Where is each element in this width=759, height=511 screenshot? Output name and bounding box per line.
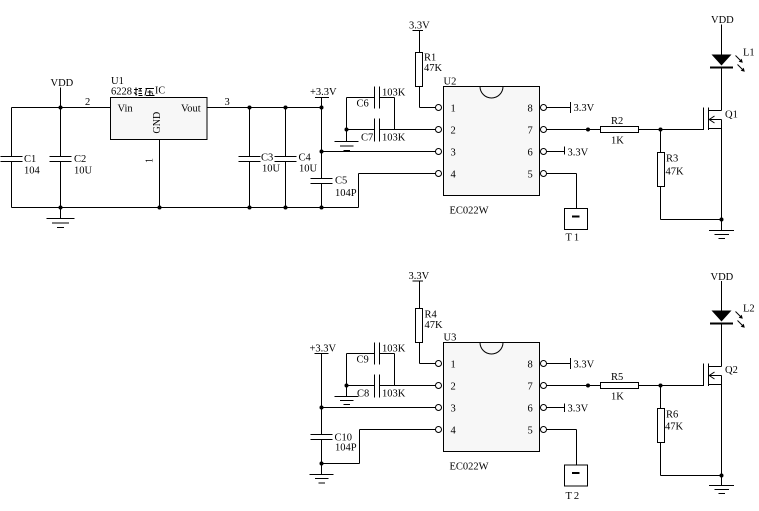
svg-text:T1: T1 [566, 233, 582, 244]
svg-text:U3: U3 [444, 333, 457, 344]
wire +3.3V down to C10 [321, 408, 323, 435]
svg-text:3.3V: 3.3V [409, 21, 430, 32]
resistor R3 [658, 130, 685, 220]
svg-text:R4: R4 [425, 310, 438, 321]
junction pin3 tee (bottom) [320, 406, 324, 410]
junction C10 bottom [320, 462, 324, 466]
regulator U1 [111, 76, 208, 140]
svg-text:103K: 103K [382, 133, 406, 144]
svg-text:2: 2 [451, 382, 456, 393]
svg-text:C8: C8 [357, 389, 369, 400]
svg-text:6: 6 [528, 404, 533, 415]
junction +3.3V rail end [320, 106, 324, 110]
svg-text:8: 8 [528, 360, 533, 371]
svg-text:104P: 104P [335, 443, 357, 454]
svg-text:C7: C7 [361, 133, 373, 144]
ground (Q1 source) [709, 220, 734, 239]
svg-text:103K: 103K [382, 389, 406, 400]
wire pin2 row (bottom) [380, 385, 436, 387]
junction pin7 wire (bottom) [586, 384, 590, 388]
wire R6 bottom to ground node [661, 475, 722, 477]
capacitor C8 [347, 375, 406, 400]
svg-text:7: 7 [528, 126, 533, 137]
svg-text:47K: 47K [665, 422, 684, 433]
LED L1 [710, 48, 755, 72]
svg-text:3: 3 [451, 148, 456, 159]
power VDD (top right) [711, 15, 734, 55]
svg-text:104: 104 [24, 166, 41, 177]
svg-text:3.3V: 3.3V [568, 148, 589, 159]
transistor Q1 [704, 108, 738, 131]
junction pin7 wire [586, 128, 590, 132]
C6/C7 loop right vertical [394, 98, 396, 130]
capacitor C5 [311, 176, 357, 208]
wire top rail right of U1 [207, 107, 322, 109]
wire R2 to gate [639, 129, 704, 131]
svg-text:3.3V: 3.3V [574, 360, 595, 371]
junction C8 left [345, 384, 349, 388]
svg-text:47K: 47K [425, 320, 444, 331]
power 3.3V (above R4) [409, 271, 430, 309]
ground (C6/C7) [335, 130, 359, 151]
wire left vertical (C1 branch) [11, 108, 13, 208]
junction R3 tee [659, 128, 663, 132]
wire pin3 row [322, 151, 436, 153]
svg-text:4: 4 [451, 170, 457, 181]
C9/C8 loop left vertical [346, 354, 348, 386]
svg-text:2: 2 [451, 126, 456, 137]
junction: VDD/C2 on top rail [59, 106, 63, 110]
wire pin5 to T2 [546, 430, 576, 466]
svg-text:1K: 1K [611, 392, 624, 403]
svg-text:5: 5 [528, 426, 533, 437]
svg-text:104P: 104P [335, 188, 357, 199]
svg-text:U1: U1 [111, 76, 124, 87]
svg-text:R2: R2 [611, 116, 623, 127]
svg-text:U2: U2 [444, 77, 457, 88]
wire Q1 source/body down [721, 120, 723, 220]
wire pin3 row (bottom) [322, 407, 436, 409]
capacitor C10 [311, 433, 357, 464]
junction pin3 tee [320, 150, 324, 154]
svg-text:R3: R3 [666, 154, 678, 165]
resistor R1 [416, 53, 443, 87]
svg-text:R6: R6 [666, 410, 678, 421]
power VDD (bottom right) [711, 272, 734, 311]
IC U2 [444, 77, 540, 217]
svg-text:IC: IC [155, 86, 165, 97]
wire U1 GND pin down [159, 140, 161, 208]
svg-text:10U: 10U [299, 164, 318, 175]
junction dots bottom rail [59, 206, 324, 210]
wire Q2 drain up [721, 325, 723, 367]
svg-text:C5: C5 [335, 176, 347, 187]
power tap 3.3V pin6 [546, 147, 588, 159]
svg-text:6: 6 [528, 148, 533, 159]
svg-text:6228: 6228 [111, 87, 132, 98]
U2 pin circles [436, 105, 547, 177]
C9/C8 loop right vertical [394, 354, 396, 386]
wire pin7 to R2 [546, 129, 600, 131]
capacitor C1 [1, 154, 41, 177]
U3 pin circles [436, 361, 547, 433]
touch pad T2 [565, 465, 588, 502]
transistor Q2 [704, 364, 738, 387]
wire pin2 row [380, 129, 436, 131]
junction C3 top [248, 106, 252, 110]
svg-text:3.3V: 3.3V [409, 271, 430, 282]
svg-text:VDD: VDD [711, 15, 734, 26]
junction ground node Q1 [720, 218, 724, 222]
svg-text:8: 8 [528, 104, 533, 115]
svg-text:10U: 10U [262, 164, 281, 175]
wire pin5 to T1 [546, 174, 576, 209]
svg-text:+3.3V: +3.3V [310, 344, 337, 355]
capacitor C7 [347, 119, 406, 144]
svg-text:47K: 47K [666, 167, 685, 178]
svg-text:3.3V: 3.3V [574, 103, 595, 114]
svg-text:1: 1 [451, 104, 456, 115]
svg-text:5: 5 [528, 170, 533, 181]
power 3.3V (above R1) [409, 21, 430, 53]
svg-text:3: 3 [225, 97, 230, 108]
LED L2 [710, 304, 755, 328]
svg-text:R1: R1 [424, 53, 436, 64]
wire R4 to pin1 [420, 343, 436, 364]
wire 3.3V vertical to pin3 node [321, 108, 323, 179]
svg-text:103K: 103K [382, 344, 406, 355]
wire bottom rail [12, 207, 359, 209]
capacitor C3 [239, 108, 281, 208]
resistor R6 [658, 386, 684, 476]
svg-text:1: 1 [145, 158, 156, 163]
svg-text:GND: GND [152, 112, 163, 134]
svg-text:4: 4 [451, 426, 457, 437]
svg-text:VDD: VDD [711, 272, 734, 283]
svg-text:103K: 103K [382, 88, 406, 99]
svg-text:VDD: VDD [51, 78, 74, 89]
svg-text:7: 7 [528, 382, 533, 393]
capacitor C4 [275, 108, 318, 208]
capacitor C6 [347, 87, 406, 110]
svg-text:1: 1 [451, 360, 456, 371]
svg-text:L2: L2 [743, 304, 755, 315]
svg-text:Vout: Vout [181, 104, 201, 115]
wire R5 to gate [639, 385, 704, 387]
touch pad T1 [565, 209, 588, 244]
ground (main rail) [47, 208, 75, 228]
wire top rail left [12, 107, 111, 109]
ground (C10) [310, 464, 334, 484]
svg-text:C1: C1 [24, 154, 36, 165]
power +3.3V (top) [310, 87, 337, 108]
junction C4 top [284, 106, 288, 110]
junction R6 tee [659, 384, 663, 388]
U1 value label 6228(CJK)IC [111, 86, 165, 98]
wire Q2 source/body down [721, 376, 723, 476]
svg-text:+3.3V: +3.3V [310, 87, 337, 98]
svg-text:C6: C6 [357, 99, 369, 110]
svg-text:Q1: Q1 [725, 110, 738, 121]
svg-text:C4: C4 [299, 153, 312, 164]
junction C7 left [345, 128, 349, 132]
ground (Q2 source) [709, 476, 734, 494]
power +3.3V (bottom left) [310, 344, 337, 408]
svg-text:L1: L1 [743, 48, 755, 59]
wire pin7 to R5 [546, 385, 600, 387]
power tap 3.3V pin8 [546, 102, 594, 114]
svg-text:EC022W: EC022W [450, 462, 489, 473]
power VDD (left) [51, 78, 74, 108]
resistor R2 [601, 116, 639, 147]
svg-text:C2: C2 [74, 154, 86, 165]
svg-text:C9: C9 [357, 355, 369, 366]
wire pin4 route [359, 174, 436, 208]
svg-text:Vin: Vin [118, 104, 134, 115]
svg-text:2: 2 [85, 97, 90, 108]
power tap 3.3V pin8 (bottom) [546, 358, 594, 371]
svg-text:10U: 10U [74, 166, 93, 177]
junction ground node Q2 [720, 474, 724, 478]
resistor R5 [601, 372, 639, 403]
svg-text:1K: 1K [611, 136, 624, 147]
power tap 3.3V pin6 (bottom) [546, 404, 588, 415]
C6/C7 loop left vertical [346, 98, 348, 130]
capacitor C2 [50, 108, 93, 208]
svg-text:Q2: Q2 [725, 365, 738, 376]
ground (C8/C9) [335, 386, 359, 405]
svg-text:3: 3 [451, 404, 456, 415]
wire R3 bottom to ground node [661, 219, 722, 221]
svg-text:R5: R5 [611, 372, 623, 383]
wire Q1 drain up [721, 69, 723, 111]
IC U3 [444, 333, 540, 473]
wire R1 to pin1 [420, 87, 436, 108]
svg-text:C3: C3 [261, 153, 273, 164]
svg-text:EC022W: EC022W [450, 206, 489, 217]
svg-text:47K: 47K [424, 63, 443, 74]
svg-text:3.3V: 3.3V [568, 404, 589, 415]
resistor R4 [416, 309, 444, 343]
svg-text:T2: T2 [566, 491, 582, 502]
wire pin4 route (bottom) [322, 430, 436, 464]
capacitor C9 [347, 343, 406, 366]
